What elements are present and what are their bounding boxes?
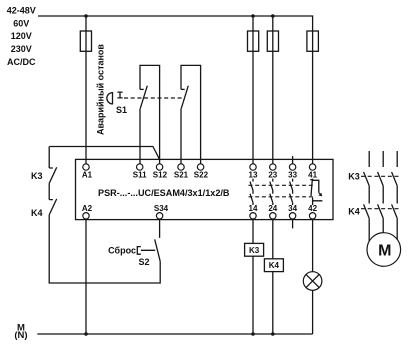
contactor coil K4	[264, 259, 283, 272]
contact K4 NC (feedback)	[49, 183, 57, 215]
junction dot A1 column on top rail	[84, 14, 88, 18]
wire 24 column to K4 coil	[272, 219, 274, 259]
wire top supply rail	[38, 16, 313, 31]
svg-text:S11: S11	[133, 170, 147, 179]
wire feedback loop top (to S12)	[49, 147, 159, 160]
wire A1 column upper	[85, 16, 87, 164]
three phase wires to motor	[369, 151, 397, 167]
svg-text:K4: K4	[269, 261, 280, 270]
svg-text:M: M	[378, 243, 391, 260]
S1 contact 2 loop (S21-S22)	[181, 65, 201, 163]
svg-text:K4: K4	[31, 208, 43, 218]
wires between K3 and K4 contacts	[369, 186, 397, 204]
fuse F3 (23 column)	[272, 16, 274, 164]
node L+ supply voltage labels	[7, 6, 36, 67]
wire 42 column to lamp	[312, 219, 314, 272]
fuse F4 (41 column)	[307, 31, 319, 51]
mech link dashed row 2	[249, 196, 316, 198]
contactor K3 main contacts	[364, 172, 398, 186]
junction dot 14 column at rail	[251, 332, 255, 336]
lamp H1	[303, 272, 322, 291]
svg-text:S34: S34	[154, 204, 169, 213]
wire feedback loop bottom	[49, 215, 160, 283]
wires K4 to motor	[369, 218, 397, 241]
svg-text:S12: S12	[153, 170, 168, 179]
contact 33-34 (NO pair)	[290, 179, 293, 205]
S1 contact 1 tick	[140, 88, 144, 90]
S1 contact 2 tick	[181, 88, 185, 90]
svg-text:K3: K3	[31, 171, 43, 181]
wire 41 column	[312, 31, 314, 164]
contact 41-42 (NC forced)	[310, 179, 322, 205]
S2 actuator bracket	[137, 247, 155, 255]
contact 13-14 (NO pair)	[250, 179, 253, 205]
fuse F2 (13 column)	[252, 16, 254, 164]
svg-text:A1: A1	[82, 170, 93, 179]
terminal S21	[178, 164, 184, 170]
motor M	[367, 233, 401, 267]
svg-text:S21: S21	[174, 170, 189, 179]
relay box PSR	[76, 159, 334, 219]
terminal A1	[83, 164, 89, 170]
S1 actuator stem	[117, 92, 122, 98]
S1 contact 1 arm	[140, 86, 147, 109]
contact K3 NC (feedback)	[49, 147, 57, 184]
svg-text:Аварийный останов: Аварийный останов	[95, 44, 105, 135]
svg-text:K4: K4	[348, 206, 360, 216]
svg-text:42-48V: 42-48V	[7, 6, 36, 16]
svg-text:23: 23	[268, 170, 277, 179]
svg-text:PSR-...-...UC/ESAM4/3x1/1x2/B: PSR-...-...UC/ESAM4/3x1/1x2/B	[98, 188, 230, 198]
terminal 33 with stub	[292, 156, 294, 164]
junction dot 24 column at rail	[271, 332, 275, 336]
svg-text:A2: A2	[82, 204, 93, 213]
contact 23-24 (NO pair)	[270, 179, 273, 205]
junction dot A2 at bottom rail	[84, 332, 88, 336]
wire K4 coil to rail	[272, 272, 274, 334]
wire K3 coil to rail	[252, 256, 254, 334]
svg-text:K3: K3	[249, 246, 260, 255]
svg-text:60V: 60V	[13, 18, 29, 28]
arrow 41-42	[319, 193, 321, 195]
S1 contact 2 arm	[181, 86, 188, 109]
svg-text:34: 34	[288, 204, 297, 213]
S1 contact 1 loop (S11-S12)	[140, 65, 160, 163]
svg-text:K3: K3	[348, 172, 360, 182]
svg-text:24: 24	[268, 204, 277, 213]
terminal 23	[270, 164, 276, 170]
K4 mech dashes	[361, 208, 401, 210]
svg-text:AC/DC: AC/DC	[7, 57, 36, 67]
svg-text:S2: S2	[139, 257, 150, 267]
K3 mech dashes	[361, 175, 401, 177]
junction dot 23 column on top rail	[271, 14, 275, 18]
terminal S11	[137, 164, 143, 170]
terminal 13	[250, 164, 256, 170]
svg-text:S1: S1	[116, 105, 127, 115]
emergency stop S1 actuator (mushroom head)	[107, 93, 113, 104]
wire lamp to rail	[312, 290, 314, 334]
terminal S12	[156, 164, 162, 170]
wire 14 column to K3 coil	[252, 219, 254, 243]
S1 mechanical link dashed	[124, 97, 185, 99]
wire S34 to S2	[159, 219, 161, 238]
svg-text:41: 41	[308, 170, 317, 179]
svg-text:120V: 120V	[11, 31, 32, 41]
svg-text:S22: S22	[194, 170, 209, 179]
svg-text:42: 42	[308, 204, 317, 213]
terminal S22	[197, 164, 203, 170]
svg-text:(N): (N)	[14, 330, 27, 341]
svg-text:13: 13	[249, 170, 258, 179]
fuse F1	[80, 31, 91, 51]
mech link dashed row 1	[249, 184, 316, 186]
bottom rail M(N)	[37, 333, 312, 335]
svg-text:230V: 230V	[11, 44, 32, 54]
contactor coil K3	[245, 243, 264, 256]
terminal 41	[309, 164, 315, 170]
reset switch S2 arm	[155, 239, 161, 261]
svg-text:14: 14	[249, 204, 258, 213]
junction dot 13 column on top rail	[251, 14, 255, 18]
contactor K4 main contacts	[364, 204, 398, 218]
svg-text:Сброс: Сброс	[108, 245, 136, 255]
wire A2 column	[85, 219, 87, 334]
svg-text:33: 33	[288, 170, 297, 179]
